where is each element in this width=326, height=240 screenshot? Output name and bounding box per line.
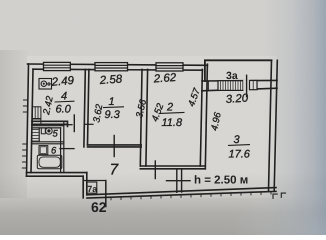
balcony 3a outline [205, 60, 272, 81]
toilet room 5 walls [32, 126, 64, 128]
stove [39, 79, 52, 90]
toilet [41, 128, 52, 135]
room3 door leaf [167, 180, 191, 182]
window room 1 [95, 63, 128, 71]
window room 3 [218, 81, 243, 91]
kitchen sink / radiator [32, 107, 41, 125]
window wall jamb tick [207, 81, 209, 91]
kitchen bottom wall [32, 121, 68, 126]
room2 door leaf [154, 161, 156, 179]
balcony door leaf [246, 75, 248, 96]
room1 door leaf [113, 136, 115, 157]
kitchen / room1 wall [84, 69, 89, 146]
right outer wall [269, 60, 278, 191]
balcony door gap [243, 80, 249, 91]
corner break ticks bottom-right [273, 193, 286, 198]
toilet door leaf [61, 124, 72, 126]
bath sink [39, 146, 48, 155]
vestibule wall [83, 173, 87, 198]
closet 7a [87, 182, 97, 193]
corridor/room3 wall [177, 169, 182, 193]
bottom outer wall [87, 188, 276, 198]
room 3 window wall [202, 80, 277, 90]
top outer wall [28, 64, 208, 70]
shaft hatch [33, 130, 39, 142]
bath door leaf [60, 148, 74, 150]
room1 bottom wall [88, 145, 142, 147]
block bottom wall [27, 173, 87, 177]
window room 2 [156, 63, 183, 71]
entrance door leaf [105, 181, 107, 207]
room2 bottom wall [140, 166, 205, 169]
window 3 sidelight [250, 81, 258, 90]
room2 / room3 wall [200, 64, 207, 169]
kitchen door leaf [73, 115, 75, 132]
room5/6 divider [32, 142, 64, 144]
bottom wall hatch [111, 191, 271, 199]
window kitchen [44, 62, 71, 70]
left outer wall [27, 64, 34, 176]
bathtub [37, 155, 62, 169]
left wall hatch [22, 100, 27, 168]
room1 / room2 wall [140, 69, 147, 166]
